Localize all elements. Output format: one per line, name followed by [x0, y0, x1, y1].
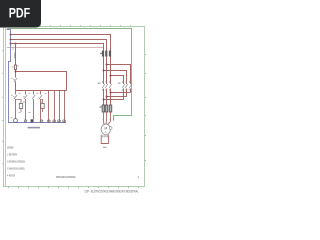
svg-text:CDP - ELETRICISTA DE MANUTENCA: CDP - ELETRICISTA DE MANUTENCAO INDUSTRI…	[85, 190, 139, 194]
wire branch 5	[48, 91, 50, 123]
wire crossover D (y=92.5)	[111, 92, 131, 94]
label motor bottom marks	[102, 135, 107, 137]
label motor designation	[103, 147, 107, 148]
label pin numbers K2	[118, 81, 131, 90]
wire branch 6	[54, 91, 56, 123]
wire L1 drop / breaker feed	[110, 51, 112, 85]
wire control rail	[16, 90, 67, 92]
node bus taps	[10, 34, 17, 45]
label motor terminals	[103, 119, 115, 121]
svg-text:2- BOTOEIRA LIGA/DESLIGA: 2- BOTOEIRA LIGA/DESLIGA	[7, 161, 25, 164]
wire K1 outputs down	[104, 89, 111, 106]
wire neutral riser (blue)	[7, 30, 67, 123]
wire branch 1	[15, 91, 17, 95]
label pin numbers K1	[98, 81, 111, 90]
terminal X6 (branch 6)	[53, 120, 56, 123]
motor M1	[101, 124, 112, 135]
contactor K1 main contacts	[102, 84, 111, 88]
PDF badge	[0, 0, 41, 28]
wire bus L3	[11, 44, 104, 51]
wire branch 4	[40, 91, 42, 95]
wire branch 7	[59, 91, 61, 123]
node lower crossover joins	[103, 92, 112, 101]
wire crossover E (y=96)	[107, 96, 127, 98]
contact S0 stop button	[13, 78, 17, 82]
wire crossover F (y=99.5)	[104, 99, 124, 101]
svg-text:4- MOTOR: 4- MOTOR	[7, 175, 15, 178]
frame tick marks	[2, 25, 146, 188]
contactor K2 main contacts	[122, 84, 131, 88]
label tiny component texts	[10, 78, 46, 119]
coil K2	[41, 104, 44, 109]
drawing frame border	[4, 27, 145, 187]
wire K2 outputs down	[124, 89, 131, 100]
wire N (neutral bus, faint)	[7, 47, 104, 49]
label wire marks	[12, 49, 15, 59]
wire control phase tap	[15, 44, 17, 66]
wire L2 drop	[106, 51, 108, 85]
wire motor leads	[104, 112, 111, 125]
wire bus L2	[11, 40, 107, 51]
wire bus L1	[11, 35, 111, 51]
terminal X4 (branch 4)	[40, 120, 43, 123]
terminal X5 (branch 5)	[47, 120, 50, 123]
svg-text:LEGENDA: LEGENDA	[7, 146, 14, 150]
legend text block	[7, 146, 25, 178]
wire branch 3	[33, 91, 35, 95]
overload relay FT1	[100, 105, 112, 112]
svg-text:3- SINALIZACAO LIGA/DESL.: 3- SINALIZACAO LIGA/DESL.	[7, 168, 25, 171]
contact K2 aux (branch 4)	[39, 95, 42, 99]
motor terminal box	[101, 135, 108, 144]
breaker Q1	[100, 51, 111, 57]
fuse F1 (control circuit)	[12, 65, 19, 70]
wire fuse to junction	[15, 70, 17, 78]
wire branch 2	[25, 91, 27, 95]
wire control feeder	[16, 72, 67, 91]
svg-text:PARTIDA DIRETA 220V/380V/60HZ: PARTIDA DIRETA 220V/380V/60HZ	[56, 175, 76, 179]
lamp H1	[14, 119, 18, 123]
wire coil jog 1	[16, 100, 22, 104]
wire PE (green protective earth conductor)	[7, 29, 132, 121]
wire crossover B (y=70)	[104, 71, 127, 85]
terminal X8 (branch 8)	[63, 120, 66, 123]
contact S1 (branch 1)	[13, 95, 17, 99]
svg-text:1- BOTOEIRA: 1- BOTOEIRA	[7, 154, 17, 157]
coil K1	[19, 104, 22, 109]
lamp H2 (dark, branch 3)	[31, 119, 34, 122]
terminal X2 (branch 2)	[24, 120, 27, 123]
contact S2 (branch 2)	[23, 95, 27, 99]
contact K1 aux (branch 3)	[32, 95, 35, 99]
node crossover joins	[103, 64, 112, 77]
wire crossover A (y=64)	[107, 65, 131, 85]
wire coil jog 2	[41, 100, 43, 104]
wire branch 8	[64, 91, 66, 123]
svg-text:1: 1	[138, 175, 140, 179]
terminal X7 (branch 7)	[58, 120, 61, 123]
node feeder junction	[15, 71, 17, 73]
svg-text:PDF: PDF	[9, 5, 31, 21]
label control circuit caption	[28, 127, 41, 129]
wire crossover C (y=75)	[111, 76, 124, 85]
wire L3 drop	[103, 51, 105, 85]
